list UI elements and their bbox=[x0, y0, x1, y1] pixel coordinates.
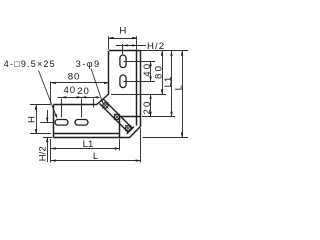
svg-text:L: L bbox=[173, 84, 184, 90]
svg-text:40: 40 bbox=[64, 85, 76, 96]
svg-text:4-□9.5×25: 4-□9.5×25 bbox=[4, 59, 56, 69]
svg-text:80: 80 bbox=[68, 72, 80, 83]
svg-text:20: 20 bbox=[77, 86, 89, 97]
svg-text:H/2: H/2 bbox=[38, 146, 49, 161]
svg-text:L: L bbox=[93, 151, 99, 162]
svg-text:L1: L1 bbox=[163, 77, 174, 88]
svg-text:H: H bbox=[119, 25, 126, 36]
svg-text:20: 20 bbox=[142, 99, 153, 114]
svg-text:40: 40 bbox=[142, 62, 153, 77]
svg-text:3-φ9: 3-φ9 bbox=[76, 59, 101, 69]
svg-text:L1: L1 bbox=[83, 139, 94, 150]
svg-text:H: H bbox=[27, 116, 38, 123]
